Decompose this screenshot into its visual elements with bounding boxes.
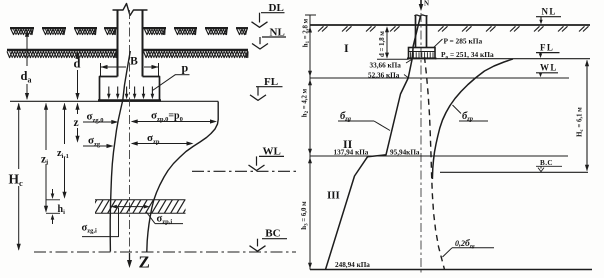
svg-text:Z: Z (139, 253, 150, 272)
svg-text:FL: FL (540, 42, 554, 52)
svg-text:Hc: Hc (9, 172, 24, 189)
column of foundation (left) (117, 10, 119, 77)
svg-text:NL: NL (542, 7, 557, 17)
svg-text:N: N (424, 0, 429, 8)
svg-text:hi: hi (58, 204, 66, 216)
sigma_zg stress polyline (right) (326, 16, 421, 270)
svg-text:σzp,0=p0: σzp,0=p0 (151, 110, 183, 123)
FL line (10, 100, 218, 102)
h_i dimension (46, 199, 60, 201)
WL line (right) (310, 77, 569, 79)
z_i-1 dimension (64, 104, 66, 145)
svg-text:WL: WL (263, 145, 281, 157)
layer II/III boundary line (310, 155, 568, 157)
svg-text:FL: FL (264, 76, 278, 88)
N load arrow (420, 0, 422, 7)
svg-text:z: z (74, 117, 79, 129)
sigma_zp stress curve (left) (147, 102, 218, 252)
d dimension (77, 53, 79, 57)
centerline (left) (129, 10, 131, 253)
DL hatching (11, 29, 33, 34)
footing base (thick) (98, 99, 161, 102)
svg-text:d: d (74, 57, 81, 71)
Z axis arrow (129, 253, 131, 264)
svg-text:zi: zi (41, 154, 48, 167)
svg-text:III: III (327, 190, 340, 202)
column (right) (415, 16, 417, 48)
d dimension (right) (386, 28, 388, 58)
svg-text:p: p (182, 61, 189, 75)
svg-text:h2 = 4,2 м: h2 = 4,2 м (302, 88, 310, 117)
svg-text:137,94 кПа: 137,94 кПа (334, 148, 369, 156)
left dimension line (309, 15, 311, 270)
svg-text:B.C: B.C (540, 159, 553, 167)
NL ground line (right) (310, 24, 590, 26)
svg-text:DL: DL (269, 2, 284, 14)
pressure p arrows (108, 87, 110, 97)
svg-text:Hc = 6,1 м: Hc = 6,1 м (577, 107, 585, 137)
FL line (right) (435, 58, 590, 60)
footing (right) (409, 48, 436, 59)
centerline (right) (420, 13, 422, 274)
sigma_zp stress curve (right) (432, 59, 513, 179)
column break symbol (113, 4, 148, 16)
B dimension (100, 63, 102, 77)
WL line (left) (192, 170, 296, 172)
NL ground line (7, 49, 117, 52)
svg-text:95,94кПа: 95,94кПа (390, 148, 420, 156)
svg-text:52,36 кПа: 52,36 кПа (368, 72, 400, 80)
BC line (left) (34, 251, 296, 253)
svg-text:248,94 кПа: 248,94 кПа (335, 261, 370, 269)
svg-text:zi-1: zi-1 (57, 148, 69, 160)
svg-text:33,66 кПа: 33,66 кПа (370, 62, 402, 70)
FL tick left of footing (377, 58, 409, 60)
sigma_zg stress curve (left) (110, 51, 130, 252)
z dimension (77, 104, 79, 115)
svg-text:WL: WL (540, 63, 558, 73)
svg-text:BC: BC (265, 228, 280, 240)
BC line (right) (440, 171, 588, 173)
z_i dimension (45, 104, 47, 151)
svg-text:I: I (344, 41, 349, 55)
svg-text:B: B (130, 56, 138, 68)
svg-text:h3 = 6,0 м: h3 = 6,0 м (301, 201, 309, 230)
svg-text:da: da (21, 69, 32, 85)
NL hatch marks (318, 26, 324, 31)
footing outline (100, 77, 118, 100)
strip inner arrows (113, 206, 147, 208)
svg-text:P = 285 кПа: P = 285 кПа (444, 37, 483, 46)
0.2 sigma_zg dashed line (425, 57, 445, 270)
Hc dimension (right) (586, 61, 588, 171)
bottom boundary line (310, 269, 592, 271)
svg-text:d = 1,8 м: d = 1,8 м (379, 31, 386, 57)
DL dashed ground line (10, 27, 34, 29)
Hc dimension (18, 104, 20, 170)
d_a dimension (26, 31, 28, 67)
svg-text:σzg,i: σzg,i (82, 223, 97, 235)
NL hatching (7, 51, 116, 57)
